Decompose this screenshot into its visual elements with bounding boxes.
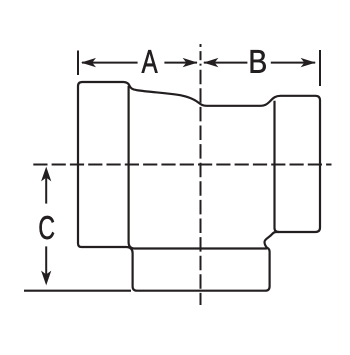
dimension A extension tick xyxy=(77,51,79,76)
horizontal centerline (dashed) xyxy=(33,164,331,166)
dimension C line upper segment xyxy=(45,170,47,204)
dimension A line right segment xyxy=(164,62,197,64)
arrowhead C up xyxy=(41,167,51,182)
dimension B extension tick xyxy=(319,50,321,86)
arrowhead A left xyxy=(81,58,96,67)
dimension C line lower segment xyxy=(45,246,47,281)
arrowhead C down xyxy=(41,271,51,286)
bottom face extension line xyxy=(24,290,131,292)
arrowhead A right xyxy=(183,58,198,67)
gap in centerline between arrow tips xyxy=(199,60,202,64)
tee fitting outer silhouette xyxy=(78,82,320,291)
label A xyxy=(142,50,158,73)
label C xyxy=(39,216,54,239)
vertical centerline (dashed) xyxy=(200,44,202,305)
arrowhead B right xyxy=(301,58,316,67)
dimension B line left segment xyxy=(204,62,248,64)
left coupling inner edge + branch cup top edge xyxy=(129,86,267,249)
arrowhead B left xyxy=(203,58,218,67)
right coupling inner edge xyxy=(275,101,280,232)
dimension B line right segment xyxy=(271,62,315,64)
label B xyxy=(251,50,266,73)
dimension A line left segment xyxy=(82,62,138,64)
